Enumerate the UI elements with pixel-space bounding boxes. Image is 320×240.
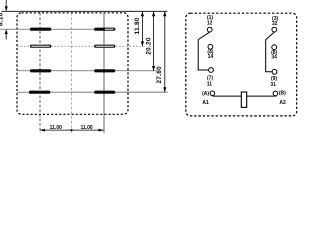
pin row2 left blade xyxy=(30,45,51,48)
svg-text:32: 32 xyxy=(272,21,278,27)
terminal 12 xyxy=(207,27,212,32)
pin row1 left blade xyxy=(30,28,51,31)
terminal 34 xyxy=(272,45,277,50)
terminal 14 xyxy=(208,44,213,49)
terminal 31 xyxy=(272,69,277,74)
pin row1 right blade xyxy=(94,28,115,31)
svg-text:20.20: 20.20 xyxy=(145,37,152,55)
coil terminal A1 xyxy=(210,91,215,96)
dimension 20.20 (right vertical) xyxy=(145,11,155,71)
bottom dimension 11.00 / 11.00 xyxy=(40,125,104,131)
top reference extension line xyxy=(2,10,168,12)
pin row4 right blade xyxy=(94,91,115,94)
coil wire left xyxy=(212,95,241,97)
row 3 centerline xyxy=(17,70,156,72)
row 1 centerline xyxy=(0,28,116,30)
coil box xyxy=(241,92,246,107)
terminal 32 xyxy=(272,27,277,32)
pin row3 right blade xyxy=(94,69,115,72)
coil wire right xyxy=(247,95,277,97)
svg-text:(A): (A) xyxy=(202,91,209,97)
terminal 11 xyxy=(209,68,214,73)
svg-text:34: 34 xyxy=(271,55,277,61)
row 4 centerline xyxy=(17,91,168,93)
pin row2 right blade xyxy=(94,45,115,48)
relay body outline (bottom view, dashed) xyxy=(17,13,128,115)
pin row3 left blade xyxy=(30,69,51,72)
svg-text:(B): (B) xyxy=(279,90,286,96)
contact arm pole 1 xyxy=(198,32,210,70)
svg-text:A1: A1 xyxy=(202,100,209,106)
coil terminal A2 xyxy=(273,91,278,96)
pin column centerline right xyxy=(103,13,105,133)
svg-text:11: 11 xyxy=(207,81,213,87)
svg-text:11.00: 11.00 xyxy=(80,125,92,131)
svg-text:6.10: 6.10 xyxy=(0,12,5,26)
svg-text:A2: A2 xyxy=(279,100,286,106)
dimension 27.80 (right vertical) xyxy=(156,11,166,92)
svg-text:27.80: 27.80 xyxy=(156,66,163,84)
pin column centerline left xyxy=(39,13,41,133)
svg-text:31: 31 xyxy=(270,82,276,88)
row 2 centerline xyxy=(17,45,145,47)
dimension 11.80 (right vertical) xyxy=(134,11,144,46)
svg-text:11.80: 11.80 xyxy=(134,17,141,34)
pin row4 left blade xyxy=(29,91,50,94)
svg-text:11.00: 11.00 xyxy=(50,125,62,131)
schematic border (dashed) xyxy=(186,13,297,116)
dimension 6.10 (left vertical) xyxy=(0,0,8,40)
contact arm pole 2 xyxy=(266,32,275,72)
svg-text:14: 14 xyxy=(208,54,214,60)
svg-text:12: 12 xyxy=(207,21,213,27)
body vertical centerline xyxy=(71,13,73,133)
